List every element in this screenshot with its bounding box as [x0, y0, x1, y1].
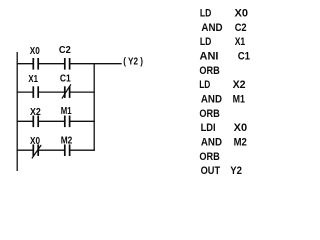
- svg-text:AND: AND: [201, 94, 222, 106]
- svg-text:M1: M1: [61, 106, 72, 117]
- svg-text:LD: LD: [199, 79, 210, 91]
- svg-text:C2: C2: [59, 45, 71, 56]
- svg-text:ANI: ANI: [200, 51, 219, 63]
- svg-text:AND: AND: [201, 137, 222, 149]
- svg-text:X0: X0: [234, 122, 248, 134]
- svg-text:C2: C2: [235, 22, 247, 34]
- svg-text:X0: X0: [235, 8, 249, 20]
- svg-text:C1: C1: [60, 74, 71, 85]
- svg-text:ORB: ORB: [199, 65, 219, 77]
- svg-text:M2: M2: [61, 136, 73, 147]
- svg-text:ORB: ORB: [199, 151, 219, 163]
- svg-text:LD: LD: [200, 8, 212, 20]
- svg-text:ORB: ORB: [199, 108, 219, 120]
- svg-text:X0: X0: [30, 136, 40, 147]
- svg-text:X2: X2: [233, 79, 246, 91]
- svg-text:X1: X1: [235, 36, 246, 48]
- svg-text:X0: X0: [30, 46, 40, 57]
- svg-text:OUT: OUT: [201, 165, 221, 177]
- svg-text:( Y2 ): ( Y2 ): [123, 57, 143, 68]
- svg-text:X2: X2: [30, 107, 41, 118]
- svg-text:LD: LD: [200, 36, 212, 48]
- svg-text:AND: AND: [201, 22, 222, 34]
- svg-text:LDI: LDI: [201, 122, 216, 134]
- svg-text:X1: X1: [28, 74, 38, 85]
- svg-text:Y2: Y2: [230, 165, 242, 177]
- svg-text:C1: C1: [238, 51, 250, 63]
- svg-text:M2: M2: [234, 137, 247, 149]
- svg-text:M1: M1: [233, 94, 245, 106]
